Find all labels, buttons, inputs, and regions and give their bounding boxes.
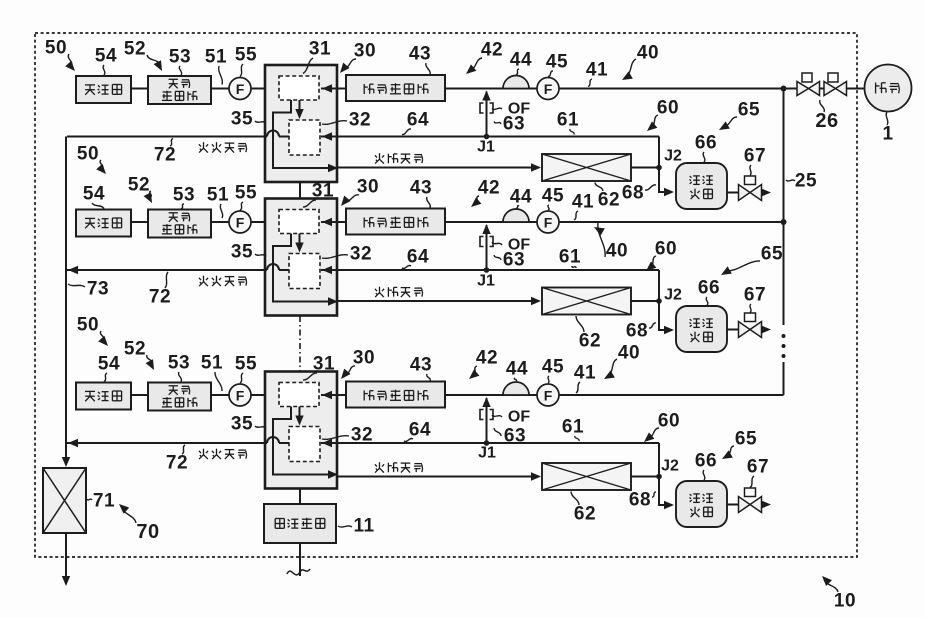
svg-text:63: 63 <box>503 250 525 271</box>
svg-text:40: 40 <box>606 241 628 262</box>
svg-text:65: 65 <box>761 244 783 265</box>
svg-text:71: 71 <box>93 491 115 512</box>
burner unit 32 row2 <box>289 254 320 289</box>
junction J1 row3 <box>484 440 490 446</box>
svg-text:60: 60 <box>655 239 677 260</box>
flow meter 55 row1 <box>229 78 251 100</box>
wire H2 line row2 <box>445 221 537 223</box>
svg-text:54: 54 <box>98 354 120 375</box>
power conditioner 11 <box>264 504 336 543</box>
wire 41 row1 <box>559 88 784 90</box>
orifice bypass wire 63 row3 <box>486 398 488 443</box>
text combustion exhaust row1 <box>203 142 205 148</box>
svg-text:50: 50 <box>77 315 99 336</box>
flow meter 45 row2 <box>537 211 559 233</box>
arrow exhaust into bus row2 <box>68 266 78 274</box>
arrow exhaust into bus row3 <box>68 439 78 447</box>
wire filter-blower row3 <box>131 394 148 396</box>
text fuel offgas row2 <box>379 287 381 293</box>
wire stack-H2blower row3 <box>321 394 346 396</box>
wire flowmeter-stack row2 <box>251 221 277 223</box>
svg-text:45: 45 <box>542 186 564 207</box>
wire 61 corner down row1 <box>658 137 660 168</box>
svg-text:64: 64 <box>409 420 431 441</box>
label 63 row1 <box>494 122 501 125</box>
fuel feed wire 64 row2 <box>321 269 659 271</box>
svg-text:51: 51 <box>207 185 229 206</box>
svg-text:63: 63 <box>503 114 525 135</box>
wire blower-flowmeter row3 <box>211 394 229 396</box>
svg-text:J1: J1 <box>477 139 495 156</box>
junction J1 row2 <box>484 267 490 273</box>
arrow into muffler 71 <box>62 457 70 467</box>
svg-text:41: 41 <box>574 363 596 384</box>
wire filter-blower row1 <box>131 88 148 90</box>
bus continuation dots <box>782 334 786 338</box>
svg-text:32: 32 <box>349 110 371 131</box>
svg-text:68: 68 <box>622 183 644 204</box>
svg-text:31: 31 <box>313 354 335 375</box>
hydrogen blower 43 row2 <box>346 209 445 235</box>
air blower 53 row3 <box>148 383 211 411</box>
svg-text:64: 64 <box>407 110 429 131</box>
combustion exhaust wire 72 row1 <box>67 131 289 137</box>
svg-text:43: 43 <box>410 178 432 199</box>
svg-text:42: 42 <box>478 178 500 199</box>
arrow fuel-offgas exit row1 <box>328 164 338 172</box>
svg-text:J1: J1 <box>477 273 495 290</box>
accumulator 44 row1 <box>503 76 529 89</box>
svg-text:60: 60 <box>657 98 679 119</box>
svg-text:30: 30 <box>357 177 379 198</box>
svg-text:51: 51 <box>201 353 223 374</box>
fuel offgas wire row1 <box>337 167 539 169</box>
svg-text:J2: J2 <box>661 458 679 475</box>
svg-text:73: 73 <box>87 279 109 300</box>
junction J2 row3 <box>656 474 662 480</box>
hydrogen source 1 <box>865 65 912 112</box>
break squiggle <box>287 569 310 575</box>
wire tank-valve row2 <box>727 329 739 331</box>
wire 68 into tank row1 <box>659 168 672 193</box>
svg-text:40: 40 <box>637 43 659 64</box>
label OF row2 <box>492 242 502 245</box>
svg-text:1: 1 <box>882 124 893 145</box>
svg-text:F: F <box>236 215 245 231</box>
combustion exhaust wire 72 row2 <box>67 264 289 270</box>
valve outlet arrow row3 <box>762 504 769 506</box>
svg-text:64: 64 <box>407 247 429 268</box>
heat exchanger 62 row3 <box>542 463 631 490</box>
orifice OF row3 <box>480 410 493 420</box>
valve outlet arrow row1 <box>762 192 769 194</box>
filter 54 row3 <box>76 383 131 410</box>
wire filter-blower row2 <box>131 221 148 223</box>
svg-text:70: 70 <box>136 521 159 543</box>
orifice OF row1 <box>480 103 493 113</box>
wire 41 row2 <box>559 221 784 223</box>
wire 61 corner down row2 <box>658 270 660 301</box>
svg-text:67: 67 <box>744 285 766 306</box>
svg-text:52: 52 <box>124 39 146 60</box>
svg-text:11: 11 <box>353 516 374 537</box>
wire 41 row3 <box>559 394 784 396</box>
heat exchanger 62 row2 <box>542 288 631 315</box>
wire 31 to 32 row1 <box>299 100 301 117</box>
svg-text:62: 62 <box>579 331 601 352</box>
label 26 <box>820 100 825 112</box>
wire tank-valve row3 <box>727 504 739 506</box>
svg-text:J2: J2 <box>664 148 682 165</box>
svg-text:63: 63 <box>504 426 526 447</box>
internal loop wire row2 <box>273 234 334 302</box>
svg-text:52: 52 <box>124 339 146 360</box>
burner unit 32 row3 <box>289 427 320 462</box>
svg-text:26: 26 <box>815 110 838 132</box>
flow meter 55 row2 <box>229 211 251 233</box>
wire stack3-power <box>299 489 301 504</box>
svg-text:45: 45 <box>542 357 564 378</box>
wire 61 corner down row3 <box>658 443 660 477</box>
drain valve 67 row2 <box>745 313 756 322</box>
svg-text:53: 53 <box>168 353 190 374</box>
wire blower-flowmeter row1 <box>211 88 229 90</box>
junction J1 row1 <box>484 134 490 140</box>
accumulator 44 row3 <box>503 382 529 395</box>
internal loop wire row1 <box>273 100 334 168</box>
fuel feed wire 64 row3 <box>321 442 659 444</box>
svg-text:54: 54 <box>95 46 117 67</box>
junction dot row2 bus <box>781 219 787 225</box>
text combustion exhaust row2 <box>203 276 205 282</box>
stack module 30 row2 <box>265 199 337 316</box>
hydrogen blower 43 row3 <box>346 382 445 408</box>
cell unit 31 row1 <box>279 76 319 100</box>
svg-text:F: F <box>544 388 553 404</box>
svg-text:50: 50 <box>77 144 99 165</box>
svg-text:66: 66 <box>695 133 717 154</box>
fuel offgas wire row3 <box>337 476 539 478</box>
wire 68 into tank row3 <box>659 477 672 506</box>
drain valve 67 row1 <box>745 176 756 185</box>
fuel feed wire 64 row1 <box>321 136 659 138</box>
wire HX-J2 row2 <box>631 300 659 302</box>
muffler 71 <box>43 468 86 533</box>
svg-text:32: 32 <box>351 425 373 446</box>
svg-text:35: 35 <box>231 109 253 130</box>
svg-text:65: 65 <box>735 429 757 450</box>
valve outlet arrow row2 <box>762 329 769 331</box>
wire between valves <box>820 88 825 90</box>
svg-text:45: 45 <box>546 52 568 73</box>
svg-text:72: 72 <box>149 287 171 308</box>
svg-text:OF: OF <box>508 409 530 426</box>
stack module 30 row3 <box>265 372 337 489</box>
svg-text:40: 40 <box>618 343 640 364</box>
wire bus to valves <box>784 88 798 90</box>
wire 68 into tank row2 <box>659 301 672 330</box>
wire stack-H2blower row2 <box>321 221 346 223</box>
svg-text:42: 42 <box>476 348 498 369</box>
wire flowmeter-stack row3 <box>251 394 277 396</box>
stack module 30 row1 <box>265 65 337 182</box>
svg-text:55: 55 <box>235 45 257 66</box>
heat exchanger 62 row1 <box>542 154 631 181</box>
text fuel offgas row3 <box>379 462 381 468</box>
svg-text:52: 52 <box>128 175 150 196</box>
svg-text:31: 31 <box>309 39 331 60</box>
label 63 row3 <box>494 428 501 436</box>
svg-text:60: 60 <box>658 411 680 432</box>
wire 31 to 32 row3 <box>299 407 301 424</box>
svg-text:44: 44 <box>510 50 532 71</box>
hydrogen blower 43 row1 <box>346 75 445 101</box>
label 1 <box>886 112 888 125</box>
svg-text:72: 72 <box>154 145 176 166</box>
svg-text:43: 43 <box>410 355 432 376</box>
wire valves to H2 source <box>847 88 866 90</box>
svg-text:42: 42 <box>481 40 503 61</box>
label OF row1 <box>492 108 502 109</box>
svg-text:53: 53 <box>173 185 195 206</box>
svg-text:54: 54 <box>83 184 105 205</box>
arrow fuel-offgas exit row2 <box>328 297 338 305</box>
svg-text:41: 41 <box>586 60 608 81</box>
svg-text:F: F <box>544 81 553 97</box>
wire stack2-stack3 dash-dot <box>299 316 301 372</box>
svg-text:44: 44 <box>506 359 528 380</box>
text combustion exhaust row3 <box>203 449 205 455</box>
fuel offgas wire row2 <box>337 300 539 302</box>
svg-text:62: 62 <box>574 504 596 525</box>
wire HX-J2 row3 <box>631 476 659 478</box>
junction J2 row2 <box>656 298 662 304</box>
svg-text:43: 43 <box>409 44 431 65</box>
svg-text:66: 66 <box>695 451 717 472</box>
arrow exhaust outlet <box>62 576 70 586</box>
svg-text:J2: J2 <box>664 287 682 304</box>
svg-text:67: 67 <box>744 146 766 167</box>
flow meter 45 row3 <box>537 384 559 406</box>
svg-text:50: 50 <box>45 38 67 59</box>
wire H2 line row1 <box>445 88 537 90</box>
drain valve 67 row3 <box>745 488 756 497</box>
arrow fuel-offgas exit row3 <box>328 470 338 478</box>
valve 26b <box>828 73 838 82</box>
wire tank-valve row1 <box>727 192 739 194</box>
condensate tank 66 row2 <box>676 306 727 352</box>
svg-text:65: 65 <box>738 100 760 121</box>
svg-text:67: 67 <box>747 457 769 478</box>
burner unit 32 row1 <box>289 120 320 155</box>
flow meter 55 row3 <box>229 384 251 406</box>
filter 54 row1 <box>76 76 131 103</box>
svg-text:68: 68 <box>629 490 651 511</box>
svg-text:44: 44 <box>510 187 532 208</box>
svg-text:F: F <box>544 215 553 231</box>
svg-text:55: 55 <box>235 183 257 204</box>
svg-text:J1: J1 <box>478 445 496 462</box>
power output wire <box>299 543 301 576</box>
svg-text:35: 35 <box>231 414 253 435</box>
svg-text:30: 30 <box>353 348 375 369</box>
wire flowmeter-stack row1 <box>251 88 277 90</box>
svg-text:F: F <box>236 388 245 404</box>
wire HX-J2 row1 <box>631 167 659 169</box>
wire blower-flowmeter row2 <box>211 221 229 223</box>
svg-text:72: 72 <box>166 453 188 474</box>
svg-text:10: 10 <box>834 591 856 612</box>
svg-text:62: 62 <box>598 190 620 211</box>
svg-text:25: 25 <box>795 171 817 192</box>
combustion exhaust wire 72 row3 <box>67 437 289 443</box>
cell unit 31 row2 <box>279 210 319 234</box>
svg-text:61: 61 <box>559 247 581 268</box>
wire stack-H2blower row1 <box>321 88 346 90</box>
condensate tank 66 row3 <box>676 481 727 527</box>
internal loop wire row3 <box>273 407 334 475</box>
orifice OF row2 <box>480 237 493 247</box>
svg-text:68: 68 <box>626 321 648 342</box>
orifice bypass wire 63 row1 <box>486 92 488 137</box>
orifice bypass wire 63 row2 <box>486 225 488 270</box>
text fuel offgas row1 <box>379 153 381 159</box>
cell unit 31 row3 <box>279 383 319 407</box>
svg-text:35: 35 <box>231 242 253 263</box>
svg-text:41: 41 <box>572 192 594 213</box>
svg-text:55: 55 <box>235 354 257 375</box>
accumulator 44 row2 <box>503 209 529 222</box>
svg-text:30: 30 <box>354 41 376 62</box>
svg-text:61: 61 <box>557 110 579 131</box>
system boundary box 10 <box>35 33 857 557</box>
svg-text:32: 32 <box>350 244 372 265</box>
wire combustion exhaust bus 73 <box>65 137 67 460</box>
wire hydrogen bus 25 <box>783 89 785 326</box>
air blower 53 row1 <box>148 76 211 104</box>
wire 31 to 32 row2 <box>299 234 301 251</box>
junction dot row1 bus <box>781 86 787 92</box>
svg-text:61: 61 <box>562 417 584 438</box>
svg-text:31: 31 <box>312 181 334 202</box>
label 11 <box>338 526 352 527</box>
svg-text:66: 66 <box>698 278 720 299</box>
label OF row3 <box>492 415 502 417</box>
svg-text:51: 51 <box>205 47 227 68</box>
junction J2 row1 <box>656 165 662 171</box>
condensate tank 66 row1 <box>676 163 727 209</box>
svg-text:F: F <box>236 81 245 97</box>
wire H2 line row3 <box>445 394 537 396</box>
flow meter 45 row1 <box>537 78 559 100</box>
svg-text:53: 53 <box>169 47 191 68</box>
wire stack1-stack2 <box>299 182 301 199</box>
filter 54 row2 <box>76 210 131 237</box>
valve 26a <box>802 73 812 82</box>
label 25 <box>786 180 795 181</box>
air blower 53 row2 <box>148 210 211 238</box>
label 63 row2 <box>494 255 501 260</box>
